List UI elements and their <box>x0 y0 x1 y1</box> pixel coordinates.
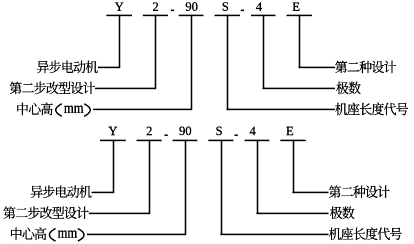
label 第二步改型设计 (bottom) <box>3 206 88 219</box>
hyphen between 2 and 90 (bottom) <box>165 135 168 136</box>
label 极数 (top) <box>336 82 361 95</box>
label fullwidth close paren (top) <box>84 104 90 117</box>
label 中心高 (bottom) <box>11 227 46 240</box>
underline under 4 (bottom) <box>245 140 270 141</box>
underline under Y (top) <box>106 15 132 16</box>
underline under 4 (top) <box>251 15 276 16</box>
wire down from 2 (bottom) <box>149 140 150 214</box>
underline under E (bottom) <box>280 140 305 141</box>
wire down from 4 (bottom) <box>257 140 258 214</box>
label 异步电动机 (top) <box>37 61 98 74</box>
code letter Y (top) <box>115 3 124 11</box>
label 中心高 (top) <box>17 103 52 116</box>
label mm (bottom) <box>58 230 77 237</box>
wire down from 90 (top) <box>191 15 192 110</box>
label 第二种设计 (top) <box>335 61 396 74</box>
underline under 90 (top) <box>179 15 204 16</box>
leader wire to label jishu (top) <box>263 88 335 89</box>
wire down from S (top) <box>227 15 228 110</box>
label 机座长度代号 (top) <box>335 103 408 116</box>
leader wire to label di'erzhong-sheji (bottom) <box>292 192 328 193</box>
leader wire to label zhongxingao (bottom) <box>87 234 186 235</box>
label 极数 (bottom) <box>330 206 355 219</box>
underline under E (top) <box>287 15 312 16</box>
code letter E (bottom) <box>286 127 293 135</box>
label mm (top) <box>64 106 83 113</box>
code number 90 (bottom) <box>179 127 191 136</box>
underline under S (top) <box>215 15 240 16</box>
underline under S (bottom) <box>208 140 233 141</box>
code digit 2 (bottom) <box>147 127 152 135</box>
code letter E (top) <box>293 3 300 11</box>
label 第二步改型设计 (top) <box>10 82 95 95</box>
code letter S (top) <box>223 2 228 10</box>
leader wire to label jizuo-changdu-daihao (bottom) <box>220 234 328 235</box>
wire down from 4 (top) <box>263 15 264 89</box>
code digit 4 (bottom) <box>250 127 256 135</box>
leader wire to label di'erzhong-sheji (top) <box>299 67 335 68</box>
wire down from E (bottom) <box>293 140 294 193</box>
leader wire to label jizuo-changdu-daihao (top) <box>227 109 335 110</box>
underline under Y (bottom) <box>100 140 126 141</box>
wire down from Y (top) <box>119 15 120 68</box>
code letter S (bottom) <box>216 127 221 135</box>
leader wire to label zhongxingao (top) <box>93 109 192 110</box>
wire down from S (bottom) <box>221 140 222 235</box>
label fullwidth open paren (bottom) <box>49 229 55 242</box>
hyphen between 2 and 90 (top) <box>171 10 174 11</box>
lower designation diagram: Y 2 - 90 S - 4 E <box>3 127 401 242</box>
wire down from 2 (top) <box>155 15 156 89</box>
hyphen between S and 4 (top) <box>241 10 244 11</box>
label 机座长度代号 (bottom) <box>329 227 402 240</box>
upper designation diagram: Y 2 - 90 S - 4 E <box>10 2 408 116</box>
code number 90 (top) <box>186 2 198 11</box>
leader wire to label yibu-diandongji (bottom) <box>92 192 114 193</box>
label 第二种设计 (bottom) <box>329 186 390 199</box>
label 异步电动机 (bottom) <box>31 185 92 198</box>
code digit 2 (top) <box>153 3 158 11</box>
label fullwidth close paren (bottom) <box>78 229 84 242</box>
leader wire to label yibu-diandongji (top) <box>98 67 120 68</box>
code letter Y (bottom) <box>108 127 117 135</box>
leader wire to label jishu (bottom) <box>256 213 328 214</box>
leader wire to label di'erbu-gaixing-sheji (top) <box>95 88 156 89</box>
label fullwidth open paren (top) <box>56 104 62 117</box>
code digit 4 (top) <box>256 3 262 11</box>
underline under 2 (bottom) <box>137 140 162 141</box>
underline under 90 (bottom) <box>173 140 198 141</box>
wire down from 90 (bottom) <box>185 140 186 235</box>
wire down from E (top) <box>299 15 300 68</box>
underline under 2 (top) <box>143 15 168 16</box>
leader wire to label di'erbu-gaixing-sheji (bottom) <box>89 213 150 214</box>
wire down from Y (bottom) <box>113 140 114 193</box>
hyphen between S and 4 (bottom) <box>235 135 238 136</box>
